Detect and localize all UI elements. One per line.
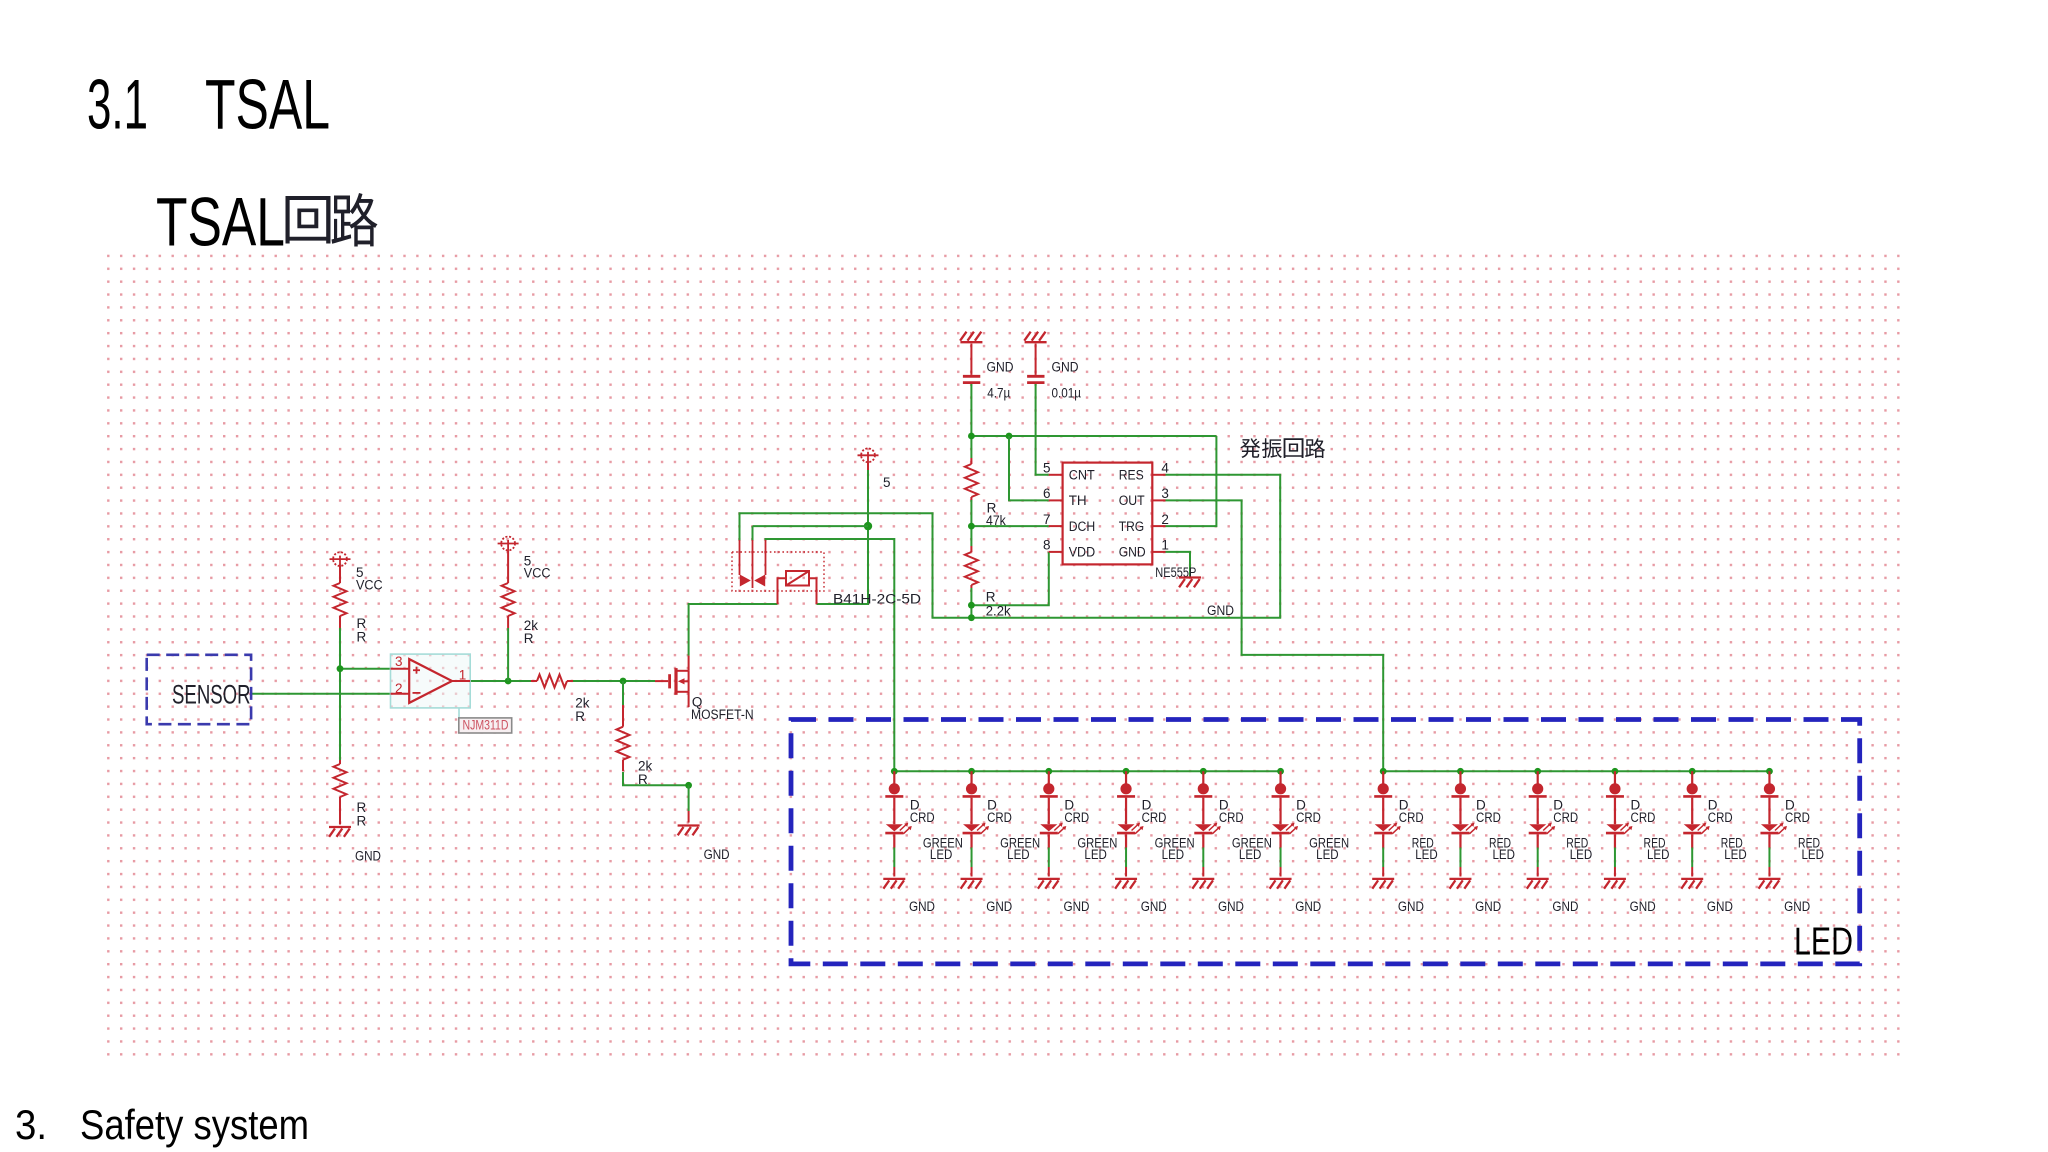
wire LED cathode string 3 [1048, 848, 1050, 868]
svg-text:TRG: TRG [1119, 519, 1145, 534]
wire LED cathode string 5 [1202, 848, 1204, 868]
svg-text:OUT: OUT [1119, 493, 1145, 508]
svg-text:LED: LED [930, 847, 953, 862]
svg-text:GND: GND [1052, 360, 1079, 375]
svg-text:CRD: CRD [1399, 810, 1424, 825]
svg-text:VCC: VCC [524, 566, 551, 581]
wire 555 GND pin1 [1166, 552, 1191, 578]
svg-text:VCC: VCC [356, 578, 383, 593]
wire VCC1 divider vertical [339, 628, 341, 760]
resistor R 2.2k [965, 546, 1011, 618]
LED RED string 7 [1374, 823, 1438, 862]
LED GREEN string 1 [885, 823, 963, 862]
wire node to opamp pin3 [340, 668, 391, 670]
svg-text:3: 3 [395, 654, 403, 669]
LED GREEN string 5 [1194, 823, 1272, 862]
LED GREEN string 2 [963, 823, 1041, 862]
svg-text:CRD: CRD [1219, 810, 1244, 825]
node LED bus string 8 [1457, 768, 1464, 775]
node relay VCC [864, 522, 872, 530]
svg-text:GND: GND [704, 847, 730, 862]
node source-pulldown [685, 782, 692, 789]
ground (NE555 pin1) [1179, 578, 1234, 619]
wire LED bus (green group) [894, 770, 1280, 772]
title heading 3.1 TSAL [87, 65, 330, 144]
resistor 2k (series gate) [531, 675, 590, 725]
wire relay pin3 to LED bus [766, 539, 895, 771]
svg-text:CRD: CRD [1708, 810, 1733, 825]
node LED bus string 2 [968, 768, 975, 775]
diode D CRD string 12 [1760, 771, 1810, 825]
ground (LED string 10) [1604, 867, 1656, 914]
svg-text:3.: 3. [15, 1101, 47, 1148]
svg-text:TSAL: TSAL [156, 184, 285, 261]
wire R2.2k bottom to VDD pin8 [971, 552, 1048, 618]
svg-text:GND: GND [909, 899, 935, 914]
LED GREEN string 3 [1040, 823, 1118, 862]
node LED bus string 4 [1123, 768, 1130, 775]
wire cap C2 to CNT pin5 [1036, 384, 1049, 475]
wire relay pin2 to VCC line [753, 526, 869, 541]
svg-text:CRD: CRD [1476, 810, 1501, 825]
node C1-R47k [968, 433, 975, 440]
svg-text:MOSFET-N: MOSFET-N [691, 707, 754, 722]
svg-text:R: R [575, 709, 585, 724]
node LED bus string 3 [1045, 768, 1052, 775]
ground (LED string 3) [1038, 867, 1090, 914]
ground (LED string 12) [1758, 867, 1810, 914]
LED RED string 8 [1451, 823, 1515, 862]
resistor R 47k [965, 458, 1006, 528]
svg-text:LED: LED [1794, 921, 1853, 964]
node LED bus string 5 [1200, 768, 1207, 775]
svg-text:LED: LED [1239, 847, 1262, 862]
wire source to ground [688, 785, 690, 811]
svg-text:SENSOR: SENSOR [172, 680, 251, 710]
svg-text:GND: GND [1218, 899, 1244, 914]
wire top node row [971, 435, 1216, 437]
svg-text:5: 5 [883, 475, 891, 490]
diode D CRD string 3 [1040, 771, 1090, 825]
svg-text:Safety system: Safety system [80, 1101, 309, 1148]
wire 2k to MOSFET gate [573, 680, 655, 682]
svg-text:GND: GND [1784, 899, 1810, 914]
diode D CRD string 8 [1451, 771, 1501, 825]
node R47k-R2.2k DCH [968, 523, 975, 530]
svg-text:LED: LED [1647, 847, 1670, 862]
LED RED string 10 [1606, 823, 1670, 862]
svg-text:3: 3 [1161, 486, 1169, 501]
svg-text:GND: GND [987, 360, 1014, 375]
svg-text:GND: GND [986, 899, 1012, 914]
wire LED cathode string 12 [1768, 848, 1770, 868]
diode D CRD string 2 [963, 771, 1013, 825]
svg-text:LED: LED [1492, 847, 1515, 862]
wire LED cathode string 2 [971, 848, 973, 868]
wire OUT pin3 to LED bus [1166, 500, 1384, 771]
LED RED string 12 [1760, 823, 1824, 862]
wire MOSFET drain to relay coil [689, 604, 778, 656]
ground (LED string 1) [883, 867, 935, 914]
resistor 2k (output pull-up) [502, 583, 539, 646]
diode D CRD string 1 [885, 771, 935, 825]
svg-text:CRD: CRD [1296, 810, 1321, 825]
node LED bus string 10 [1612, 768, 1619, 775]
SENSOR block [147, 655, 251, 724]
svg-text:GND: GND [1398, 899, 1424, 914]
svg-text:GND: GND [1119, 545, 1146, 560]
op-amp U1 NJM311D comparator [391, 654, 471, 718]
svg-text:LED: LED [1415, 847, 1438, 862]
svg-text:CRD: CRD [910, 810, 935, 825]
wire LED cathode string 4 [1125, 848, 1127, 868]
ground (LED string 5) [1192, 867, 1244, 914]
svg-text:LED: LED [1801, 847, 1824, 862]
ground (LED string 9) [1527, 867, 1579, 914]
wire relay coil to VCC [817, 469, 869, 604]
wire cap C1 to node row [970, 384, 972, 458]
svg-text:1: 1 [459, 668, 467, 683]
node LED bus string 7 [1380, 768, 1387, 775]
svg-text:VDD: VDD [1069, 545, 1096, 560]
capacitor C1 4.7u with ground [960, 332, 1014, 401]
node VDD net [968, 602, 975, 609]
svg-text:CRD: CRD [987, 810, 1012, 825]
svg-text:GND: GND [1141, 899, 1167, 914]
svg-text:6: 6 [1043, 486, 1051, 501]
svg-text:CNT: CNT [1069, 468, 1095, 483]
svg-text:CRD: CRD [1631, 810, 1656, 825]
relay B41H-2C-5D coil [778, 571, 817, 604]
node TH branch [1006, 433, 1013, 440]
wire LED cathode string 8 [1459, 848, 1461, 868]
svg-text:CRD: CRD [1553, 810, 1578, 825]
node LED bus string 12 [1766, 768, 1773, 775]
ground (LED string 11) [1681, 867, 1733, 914]
node output-feedback [505, 678, 512, 685]
diode D CRD string 7 [1374, 771, 1424, 825]
diode D CRD string 11 [1683, 771, 1733, 825]
wire pulldown bottom to source [623, 772, 689, 785]
ground (LED string 8) [1449, 867, 1501, 914]
svg-text:7: 7 [1043, 512, 1051, 527]
wire LED bus (red group) [1383, 770, 1769, 772]
power VCC relay 5V [858, 448, 891, 490]
footer 3. Safety system [15, 1101, 309, 1148]
svg-text:8: 8 [1043, 538, 1051, 553]
LED RED string 11 [1683, 823, 1747, 862]
capacitor C2 0.01u with ground [1024, 332, 1081, 401]
svg-text:RES: RES [1119, 468, 1144, 483]
svg-text:LED: LED [1007, 847, 1030, 862]
svg-text:GND: GND [1064, 899, 1090, 914]
node LED bus string 1 [891, 768, 898, 775]
svg-text:CRD: CRD [1785, 810, 1810, 825]
diode D CRD string 6 [1272, 771, 1322, 825]
svg-text:LED: LED [1570, 847, 1593, 862]
node gate-pulldown [620, 678, 627, 685]
ground (LED string 7) [1372, 867, 1424, 914]
svg-text:R: R [524, 631, 534, 646]
label NJM311D [459, 718, 512, 734]
wire SENSOR to opamp pin2 [251, 693, 391, 695]
svg-text:TH: TH [1069, 493, 1087, 508]
svg-text:LED: LED [1724, 847, 1747, 862]
diode D CRD string 4 [1117, 771, 1167, 825]
svg-text:0.01µ: 0.01µ [1052, 386, 1082, 401]
wire opamp output [470, 680, 531, 682]
wire relay pin1 to RES net [740, 475, 1281, 618]
svg-text:R: R [357, 813, 367, 828]
LED array dashed box [791, 720, 1860, 964]
node RES net crossing [968, 614, 975, 621]
node LED bus string 9 [1534, 768, 1541, 775]
LED GREEN string 4 [1117, 823, 1195, 862]
svg-text:5: 5 [1043, 461, 1051, 476]
svg-text:2: 2 [395, 681, 403, 696]
wire TRG branch [1166, 436, 1217, 526]
svg-text:CRD: CRD [1142, 810, 1167, 825]
svg-text:LED: LED [1084, 847, 1107, 862]
diode D CRD string 9 [1529, 771, 1579, 825]
resistor R (lower divider) [334, 760, 367, 828]
node divider-pin3 [337, 665, 344, 672]
wire LED cathode string 6 [1280, 848, 1282, 868]
transistor Q MOSFET-N [655, 656, 689, 707]
ground (MOSFET source) [678, 811, 730, 862]
svg-text:2.2k: 2.2k [986, 603, 1011, 618]
svg-text:R: R [638, 772, 648, 787]
wire R47k to DCH pin7 [971, 500, 1048, 546]
op IC U2 NE555P [1043, 461, 1196, 580]
wire LED cathode string 11 [1691, 848, 1693, 868]
node LED bus string 6 [1277, 768, 1284, 775]
LED RED string 9 [1529, 823, 1593, 862]
svg-text:TSAL: TSAL [205, 65, 330, 144]
diode D CRD string 10 [1606, 771, 1656, 825]
label B41H-2C-5D [833, 592, 921, 607]
svg-text:47k: 47k [986, 513, 1006, 528]
resistor R (upper divider) [334, 583, 367, 645]
svg-text:NJM311D: NJM311D [463, 718, 509, 733]
svg-text:3.1: 3.1 [87, 65, 148, 144]
svg-text:DCH: DCH [1069, 519, 1096, 534]
svg-text:GND: GND [1552, 899, 1578, 914]
ground (LED string 2) [961, 867, 1013, 914]
diode D CRD string 5 [1194, 771, 1244, 825]
svg-text:GND: GND [1207, 603, 1234, 618]
resistor 2k (gate pulldown) [617, 705, 653, 787]
ground (divider) [329, 827, 381, 864]
power VCC1 5V [330, 552, 383, 592]
subtitle TSAL回路 [156, 184, 378, 261]
svg-text:4: 4 [1161, 461, 1169, 476]
wire LED cathode string 9 [1537, 848, 1539, 868]
power VCC2 5V [498, 537, 551, 583]
wire LED cathode string 10 [1614, 848, 1616, 868]
svg-text:LED: LED [1316, 847, 1339, 862]
svg-text:GND: GND [1475, 899, 1501, 914]
svg-text:GND: GND [1707, 899, 1733, 914]
wire gate node down to 2k pulldown [622, 681, 624, 705]
svg-text:R: R [357, 630, 367, 645]
schematic grid background [106, 253, 1903, 1060]
ground (LED string 6) [1270, 867, 1322, 914]
ground (LED string 4) [1115, 867, 1167, 914]
svg-text:2: 2 [1161, 512, 1169, 527]
wire VCC2 2k to output node [507, 628, 509, 681]
label 発振回路 oscillator circuit [1240, 438, 1325, 458]
svg-text:CRD: CRD [1064, 810, 1089, 825]
relay B41H-2C-5D input diodes [732, 540, 824, 591]
svg-text:B41H-2C-5D: B41H-2C-5D [833, 592, 921, 607]
svg-text:GND: GND [1295, 899, 1321, 914]
svg-text:GND: GND [355, 849, 381, 864]
wire LED cathode string 1 [893, 848, 895, 868]
wire LED cathode string 7 [1382, 848, 1384, 868]
svg-text:4.7µ: 4.7µ [987, 386, 1010, 401]
svg-text:LED: LED [1162, 847, 1185, 862]
svg-text:1: 1 [1161, 538, 1169, 553]
svg-text:GND: GND [1630, 899, 1656, 914]
LED GREEN string 6 [1272, 823, 1350, 862]
node LED bus string 11 [1689, 768, 1696, 775]
wire TH branch [1009, 436, 1049, 500]
